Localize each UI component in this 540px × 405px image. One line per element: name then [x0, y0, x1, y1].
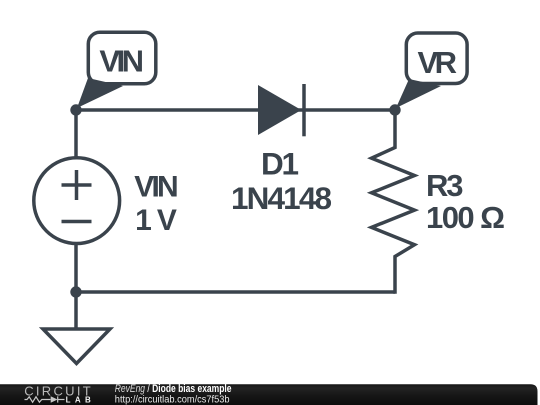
- svg-text:R3: R3: [426, 168, 464, 203]
- svg-text:LAB: LAB: [66, 396, 91, 405]
- svg-text:100 Ω: 100 Ω: [426, 200, 505, 235]
- svg-text:1N4148: 1N4148: [231, 180, 332, 216]
- svg-text:D1: D1: [261, 146, 299, 182]
- svg-text:VIN: VIN: [99, 44, 144, 79]
- svg-text:VR: VR: [418, 45, 458, 80]
- svg-text:1 V: 1 V: [135, 204, 177, 237]
- svg-text:VIN: VIN: [134, 170, 179, 203]
- svg-text:http://circuitlab.com/cs7f53b: http://circuitlab.com/cs7f53b: [115, 393, 230, 405]
